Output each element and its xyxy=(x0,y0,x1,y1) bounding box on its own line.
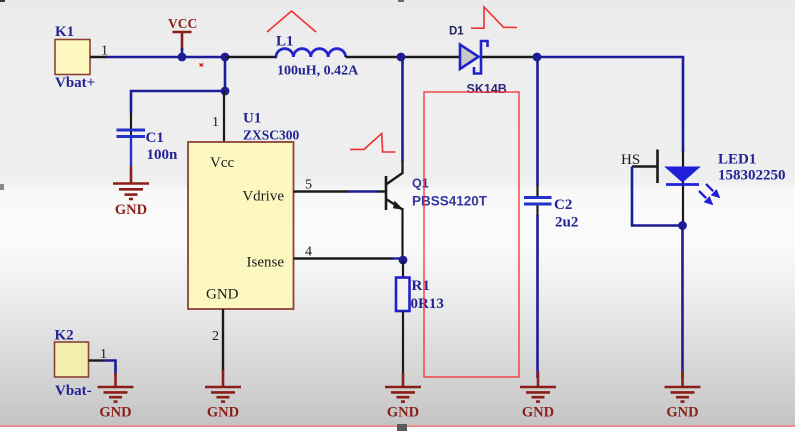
ground GND (C1) xyxy=(113,166,149,218)
wire xyxy=(536,185,538,196)
svg-text:GND: GND xyxy=(387,405,419,421)
svg-text:R1: R1 xyxy=(412,278,430,294)
power VCC xyxy=(168,16,197,57)
wire xyxy=(131,91,225,113)
wire rail xyxy=(482,56,536,58)
svg-text:2u2: 2u2 xyxy=(555,215,578,231)
node junction xyxy=(178,53,187,62)
wire xyxy=(536,215,539,378)
wire xyxy=(682,151,684,223)
node junction xyxy=(533,53,542,62)
svg-text:L1: L1 xyxy=(276,34,294,50)
wire U1 pin 2 xyxy=(212,309,223,372)
connector K1 xyxy=(55,24,108,91)
svg-text:C2: C2 xyxy=(554,197,572,213)
capacitor C1 xyxy=(117,126,179,163)
node junction xyxy=(399,256,408,265)
node junction xyxy=(678,221,687,230)
svg-text:5: 5 xyxy=(305,178,312,193)
wire Q1 collector xyxy=(401,57,404,162)
ground GND (U1) xyxy=(205,370,241,421)
wire Q1 emitter xyxy=(401,208,403,261)
svg-text:GND: GND xyxy=(115,202,147,218)
svg-text:LED1: LED1 xyxy=(718,152,756,168)
wire xyxy=(130,138,132,166)
wire xyxy=(632,167,682,226)
node junction xyxy=(221,53,230,62)
svg-text:K2: K2 xyxy=(55,328,74,344)
svg-text:U1: U1 xyxy=(243,111,261,127)
connector K2 xyxy=(55,328,108,400)
svg-text:ZXSC300: ZXSC300 xyxy=(243,128,300,143)
svg-text:158302250: 158302250 xyxy=(718,168,786,184)
svg-text:100uH, 0.42A: 100uH, 0.42A xyxy=(277,64,359,79)
svg-text:GND: GND xyxy=(522,405,554,421)
svg-text:100n: 100n xyxy=(147,147,179,163)
ground GND (C2) xyxy=(520,371,556,421)
wire rail xyxy=(346,56,460,58)
node junction xyxy=(397,53,406,62)
wire U1 pin 4 xyxy=(294,245,404,260)
inductor L1 xyxy=(276,34,359,79)
capacitor C2 xyxy=(524,197,578,231)
svg-text:0R13: 0R13 xyxy=(411,296,444,312)
svg-text:4: 4 xyxy=(305,245,312,260)
ground GND (LED1) xyxy=(665,371,701,421)
svg-text:GND: GND xyxy=(207,405,239,421)
node junction xyxy=(221,87,230,96)
svg-text:2: 2 xyxy=(212,329,219,344)
wire xyxy=(681,226,684,378)
wire xyxy=(106,56,226,59)
wire U1 pin 1 xyxy=(212,91,224,142)
transistor Q1 xyxy=(386,173,488,210)
wire xyxy=(402,311,404,375)
wire xyxy=(536,206,538,217)
wire xyxy=(537,57,683,152)
svg-text:GND: GND xyxy=(206,287,239,303)
resistor R1 xyxy=(396,278,444,313)
LED LED1 xyxy=(666,152,786,205)
svg-text:C1: C1 xyxy=(146,130,164,146)
svg-text:GND: GND xyxy=(99,405,131,421)
annotation sawtooth waveform (Q1) xyxy=(350,134,395,153)
heatsink HS xyxy=(621,150,658,184)
wire xyxy=(130,113,132,128)
svg-text:SK14B: SK14B xyxy=(467,82,507,96)
red x mark xyxy=(200,64,204,67)
IC U1 xyxy=(188,111,300,310)
svg-text:1: 1 xyxy=(212,115,219,130)
svg-text:Isense: Isense xyxy=(247,255,285,271)
ground GND (R1) xyxy=(385,373,421,421)
svg-text:K1: K1 xyxy=(55,24,74,40)
annotation triangle waveform xyxy=(267,11,316,32)
ground GND (K2) xyxy=(98,373,134,421)
svg-text:D1: D1 xyxy=(449,26,464,38)
svg-text:Q1: Q1 xyxy=(412,177,429,191)
svg-text:Vdrive: Vdrive xyxy=(242,189,284,205)
wire xyxy=(402,260,404,278)
wire rail xyxy=(225,56,277,58)
svg-text:Vbat+: Vbat+ xyxy=(55,75,95,91)
svg-text:Vcc: Vcc xyxy=(210,155,234,171)
wire xyxy=(103,361,116,376)
svg-text:VCC: VCC xyxy=(168,16,197,31)
svg-text:GND: GND xyxy=(666,405,698,421)
wire U1 pin 5 xyxy=(294,178,387,193)
wire C2 branch xyxy=(536,57,539,186)
diode D1 xyxy=(449,26,507,97)
svg-text:Vbat-: Vbat- xyxy=(55,383,92,399)
annotation sawtooth waveform (D1) xyxy=(471,7,517,28)
annotation red rectangle xyxy=(424,92,519,377)
wire xyxy=(224,57,227,91)
